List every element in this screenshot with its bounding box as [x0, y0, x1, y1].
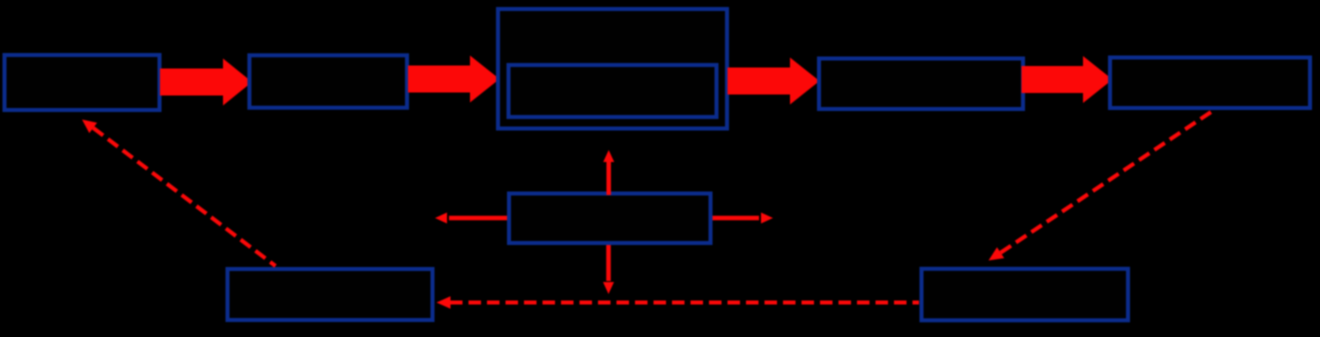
box C-inner: [509, 65, 717, 117]
dashed arrow D3 (bottom-right box to bottom-left box): [437, 296, 920, 309]
block arrow A1: [160, 59, 252, 106]
block arrow A4: [1022, 56, 1113, 103]
box B2: [249, 55, 407, 107]
box B5 (top-right): [1110, 58, 1310, 109]
block arrow A2: [408, 56, 500, 103]
box C-outer (center large): [498, 9, 727, 129]
arrow M-up: [603, 150, 614, 195]
box M (middle): [509, 194, 711, 244]
box BR (bottom-right): [922, 269, 1129, 321]
dashed arrow D1 (bottom-left box to box B1): [82, 120, 276, 267]
box BL (bottom-left): [228, 269, 433, 320]
block arrow A3: [728, 58, 820, 105]
dashed arrow D2 (box B5 to bottom-right box): [989, 110, 1215, 261]
arrow M-down: [603, 245, 614, 294]
arrow M-right: [713, 213, 774, 224]
box B1 (top-left): [5, 55, 160, 110]
box B4: [819, 59, 1023, 110]
arrow M-left: [435, 213, 507, 224]
